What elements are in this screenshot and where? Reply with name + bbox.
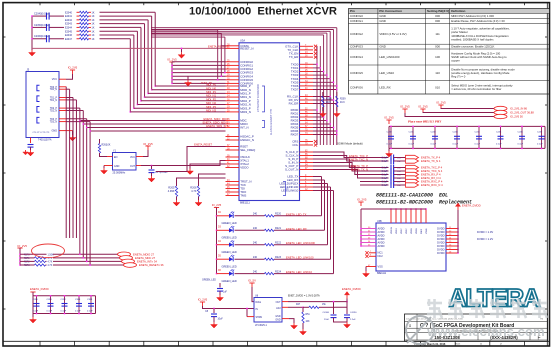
wire led row 2 right <box>274 244 328 246</box>
svg-text:IO_2V5: IO_2V5 <box>436 101 446 105</box>
terminator network row 6 labels <box>65 34 95 37</box>
pin TD3 stub <box>59 121 66 123</box>
resistor R_rset2 <box>197 186 199 197</box>
svg-text:ENETA_LED_LINK10: ENETA_LED_LINK10 <box>286 270 312 274</box>
svg-text:0.1uF: 0.1uF <box>431 144 437 146</box>
pin VCC stub magnetics <box>59 78 66 80</box>
power ENETA_DVDD reg <box>342 287 361 298</box>
junction termination drop 6 <box>133 107 135 109</box>
wire dvdd bank bottom rail <box>33 313 96 315</box>
wire ferrite row 3 to drop <box>100 23 145 25</box>
wire MDI row 6 <box>134 107 226 109</box>
svg-text:Setting Bit[2:0]: Setting Bit[2:0] <box>427 9 449 13</box>
wire cap bank bottom rail <box>389 147 545 149</box>
power IO_2V5 oscillator <box>143 142 153 150</box>
terminator network row 1 labels <box>65 15 95 18</box>
ground reg in cap <box>211 322 218 328</box>
svg-text:C243: C243 <box>453 131 459 133</box>
svg-text:copper: copper <box>451 59 460 63</box>
wire led row 0 mid <box>235 215 265 217</box>
power IO_2V5 magnetics <box>68 66 78 75</box>
svg-text:ENETA_RX_N 4: ENETA_RX_N 4 <box>421 176 441 180</box>
wire R2080 gnd <box>322 107 324 111</box>
svg-text:C246: C246 <box>518 131 524 133</box>
resistor R273 <box>20 264 47 266</box>
svg-text:0.1uF: 0.1uF <box>382 178 388 180</box>
junction COMA tie <box>181 48 183 50</box>
svg-text:ENETA_SDN_INT: ENETA_SDN_INT <box>206 124 228 128</box>
svg-text:C353: C353 <box>75 299 81 301</box>
wire MDI row 7 <box>130 111 225 113</box>
wire dvdd bank top rail <box>33 295 96 297</box>
led D2 GREEN_LED <box>229 240 234 247</box>
power ENETA_DVDD U3B <box>455 203 480 210</box>
ground R_rset2 <box>195 200 202 206</box>
resistor R_led0 240 <box>265 215 275 217</box>
svg-text:ENETA_SDIO_MDC: ENETA_SDIO_MDC <box>204 117 228 121</box>
wire CONFIG4 to chip <box>172 75 226 77</box>
wire TD wire 3 right <box>66 99 76 101</box>
resistor RN207 stubs <box>77 38 92 40</box>
wire pull row 2 to oval <box>53 260 122 262</box>
svg-text:240: 240 <box>253 213 258 216</box>
wire radj gnd <box>302 323 304 329</box>
svg-text:NC2: NC2 <box>378 254 384 258</box>
resistor R_adj 10K <box>302 312 304 323</box>
svg-text:ENETA_RESETn 36: ENETA_RESETn 36 <box>139 263 164 267</box>
svg-text:CONFIG2: CONFIG2 <box>350 32 363 36</box>
wire U3B left rail <box>360 209 362 246</box>
svg-text:0.1uF: 0.1uF <box>75 311 81 313</box>
wire U3B vss gnd <box>365 267 367 272</box>
PHY power chip U3B body <box>376 220 446 275</box>
svg-text:U3A: U3A <box>240 39 245 43</box>
pin reg out stub <box>282 301 288 303</box>
resistor RN204 <box>80 26 89 28</box>
junction CONFIG5 <box>171 79 173 81</box>
wire SGMII diff rows <box>313 152 389 185</box>
svg-text:Reg (?) = 0: Reg (?) = 0 <box>451 75 466 79</box>
junction adj node <box>302 307 304 309</box>
svg-text:C247: C247 <box>537 131 543 133</box>
svg-text:MDI_N2: MDI_N2 <box>206 101 216 105</box>
svg-text:ENETA_TX_P 4: ENETA_TX_P 4 <box>421 156 441 160</box>
wire branch bus left of chip <box>151 30 226 81</box>
svg-text:GREEN_LED: GREEN_LED <box>222 266 237 269</box>
watermark elecfans circle <box>406 316 434 344</box>
svg-text:GND: GND <box>275 320 280 322</box>
svg-text:CONFIG1: CONFIG1 <box>350 19 363 23</box>
svg-text:GND: GND <box>379 19 385 23</box>
wire config rail <box>171 62 173 83</box>
wire ferrite row 7 to drop <box>100 38 131 40</box>
resistor R_led2 240 <box>265 244 275 246</box>
svg-text:ENETA_TX_N: ENETA_TX_N <box>351 168 368 172</box>
svg-text:88E1111: 88E1111 <box>377 272 387 275</box>
resistor RN204 stubs <box>77 26 92 28</box>
wire TD wire 0 right <box>65 86 67 88</box>
ground R2080 <box>319 111 326 117</box>
junction CONFIG3 <box>171 72 173 74</box>
svg-text:C352: C352 <box>61 299 67 301</box>
wire reg gnd <box>289 319 294 323</box>
junction led rail 1 <box>216 230 218 232</box>
wire XTAL2 gnd <box>190 164 226 169</box>
wire ferrite row 1 to drop <box>100 15 152 17</box>
svg-text:CONFIG5: CONFIG5 <box>350 71 363 75</box>
wire TD wire 3 drop <box>75 100 77 238</box>
svg-text:MDI_P3: MDI_P3 <box>206 105 216 109</box>
offpage oval ENETA mdio 0 <box>118 252 131 257</box>
svg-text:010: 010 <box>435 85 440 89</box>
pin U3B NC2 <box>365 255 376 258</box>
svg-text:VDDR: VDDR <box>411 228 413 234</box>
wire shdn join <box>246 309 248 317</box>
wire magnetics gnd drop <box>72 131 74 135</box>
junction pull bottom 3 <box>89 264 91 266</box>
svg-text:C240: C240 <box>387 131 393 133</box>
title block <box>405 314 548 346</box>
wire C_ct to ground <box>30 147 32 150</box>
wire R_rset2 up <box>199 174 226 186</box>
wire TD wire 4 drop <box>79 108 81 254</box>
capacitor C4180 <box>331 315 337 318</box>
wire termination drop 1 <box>151 16 153 90</box>
junction pull bottom 0 <box>79 254 81 256</box>
svg-text:ENETA_TX_P: ENETA_TX_P <box>351 164 368 168</box>
pins U3B AVDD <box>360 227 376 247</box>
wire TD wire 6 drop <box>86 119 88 262</box>
svg-text:www.elecfans.com: www.elecfans.com <box>426 324 545 339</box>
svg-text:22uF: 22uF <box>324 319 330 321</box>
wire U3B top rail <box>361 208 426 210</box>
svg-text:GREEN_LED: GREEN_LED <box>222 237 237 240</box>
junction termination drop 5 <box>137 104 139 106</box>
svg-text:C2040|0.01uF: C2040|0.01uF <box>34 12 50 15</box>
magnetics transformer J5 body <box>26 68 59 138</box>
svg-text:0.1uF: 0.1uF <box>496 144 502 146</box>
power IO_2V5 led rail <box>212 203 222 211</box>
svg-text:240: 240 <box>253 270 258 273</box>
svg-text:IO_2V5: IO_2V5 <box>198 298 208 302</box>
svg-text:10K: 10K <box>306 321 311 323</box>
svg-text:240: 240 <box>253 256 258 259</box>
label R_rset1 <box>168 186 175 194</box>
pin TD0 stub <box>59 86 66 88</box>
svg-text:AVDD: AVDD <box>378 241 385 245</box>
wire CONFIG0 to chip <box>172 61 226 63</box>
wire R_rset1 up <box>177 178 226 186</box>
junction termination drop 7 <box>130 111 132 113</box>
svg-text:NC1: NC1 <box>378 251 384 255</box>
svg-text:TD0_N: TD0_N <box>50 89 58 91</box>
svg-text:IO_2V5: IO_2V5 <box>212 203 222 207</box>
svg-text:TXD7: TXD7 <box>291 88 299 92</box>
ground cap bank <box>386 148 393 157</box>
svg-text:AVDD: AVDD <box>378 237 385 241</box>
pin TD2 stub <box>59 107 66 109</box>
wire TD wire 2 drop <box>72 98 74 239</box>
svg-text:C354: C354 <box>87 299 93 301</box>
svg-text:0.1uF: 0.1uF <box>87 311 93 313</box>
svg-text:VCC: VCC <box>52 78 57 81</box>
svg-text:MDI_P2: MDI_P2 <box>206 97 216 101</box>
wire U3B dvdd rail <box>457 210 459 253</box>
svg-text:DVDD: DVDD <box>437 227 444 231</box>
terminator network row 2 labels <box>65 19 95 22</box>
svg-text:ENETA_RXC_N 4: ENETA_RXC_N 4 <box>421 183 443 187</box>
terminator network row 3 labels <box>65 23 95 26</box>
resistor R_rset1 <box>175 186 177 197</box>
ground magnetics GND pin <box>69 135 76 141</box>
svg-text:TX_ER: TX_ER <box>289 55 298 59</box>
pin TD1 stub <box>59 99 66 101</box>
border inner right line <box>546 3 548 346</box>
svg-text:R222: R222 <box>275 241 282 244</box>
wire MDI row 1 <box>152 89 226 91</box>
svg-text:Pin: Pin <box>350 9 355 13</box>
wire ENETA_RESET <box>156 147 226 172</box>
offpage oval ENETA mdio 3 <box>124 263 137 268</box>
svg-text:1K: 1K <box>92 30 95 33</box>
svg-text:ENETA_RXC_P 4: ENETA_RXC_P 4 <box>421 180 443 184</box>
ground dvdd bank <box>30 317 37 323</box>
pin U3B VSS <box>366 265 376 267</box>
wire MDI row 4 <box>141 100 226 102</box>
svg-text:MDI_N0: MDI_N0 <box>206 86 216 90</box>
svg-text:SHDN: SHDN <box>256 317 263 319</box>
wire out cap branch <box>333 302 335 314</box>
wire regled gnd <box>219 291 221 295</box>
wire TD wire 5 right <box>66 110 83 112</box>
svg-text:LTC3025-1: LTC3025-1 <box>255 324 267 327</box>
label C_regin <box>205 311 223 321</box>
svg-text:4.99K: 4.99K <box>168 189 175 193</box>
pin VCC stub osc <box>136 156 143 158</box>
svg-text:ENETA_SDIO_MDIO: ENETA_SDIO_MDIO <box>203 121 228 125</box>
svg-text:GREEN_LED: GREEN_LED <box>222 222 237 225</box>
wire osc gnd <box>103 166 105 169</box>
svg-text:CONFIG6: CONFIG6 <box>350 85 363 89</box>
wire led vertical 0 <box>321 177 323 216</box>
svg-text:IN: IN <box>256 309 259 311</box>
wire COMA tie <box>181 48 183 52</box>
led D4 GREEN_LED <box>229 269 234 276</box>
capacitor C4190 <box>344 315 350 318</box>
junction top-left cap row 0 <box>31 15 33 17</box>
ground xtal cap <box>148 176 155 182</box>
led D1 GREEN_LED <box>229 226 234 233</box>
wire CONFIG3 to chip <box>172 72 226 74</box>
junction CONFIG4 <box>171 75 173 77</box>
svg-text:MDI_P1: MDI_P1 <box>206 90 216 94</box>
svg-text:VDDOH: VDDOH <box>391 226 393 234</box>
svg-text:0.1uF: 0.1uF <box>382 174 388 176</box>
svg-text:DVDD = 1.0V: DVDD = 1.0V <box>477 230 493 234</box>
label R_rset2 <box>190 186 197 194</box>
svg-text:LED_LINK1000: LED_LINK1000 <box>379 55 399 59</box>
offpage oval ENETA mdio 1 <box>120 256 133 261</box>
capacitors bypass bank <box>387 126 545 149</box>
pin reg gnd stub <box>282 318 289 320</box>
resistor R_led4 240 <box>265 272 275 274</box>
junction termination drop 4 <box>140 100 142 102</box>
wire TD wire 1 right <box>66 88 70 90</box>
resistor RN206 stubs <box>77 34 92 36</box>
pin TD0 stub <box>59 88 66 90</box>
svg-text:240: 240 <box>253 241 258 244</box>
svg-text:E2042: E2042 <box>65 19 73 22</box>
wire MDI row 0 <box>155 85 225 87</box>
svg-text:FREF: FREF <box>421 228 423 234</box>
ground oscillator <box>101 168 108 174</box>
junction led rail 2 <box>216 244 218 246</box>
power IO_2V5 bank left <box>384 116 394 125</box>
wire reg in <box>203 306 255 309</box>
wire CONFIG2 to chip <box>172 68 226 70</box>
pin EN stub <box>107 156 113 158</box>
wire pull row 3 to oval <box>53 264 124 266</box>
junction pull rail 2 <box>19 261 21 263</box>
svg-text:GREEN_LED: GREEN_LED <box>202 280 216 282</box>
svg-text:0.1uF: 0.1uF <box>382 157 388 159</box>
svg-text:VSS: VSS <box>378 265 383 269</box>
svg-text:0.1uF: 0.1uF <box>61 311 67 313</box>
pins U3B DVDD <box>446 227 459 254</box>
PHY internal bracket JTAG <box>283 182 290 196</box>
svg-text:ENETA_DVDD: ENETA_DVDD <box>342 287 361 291</box>
border right ruler ticks <box>545 37 547 309</box>
svg-text:C4190: C4190 <box>350 312 357 314</box>
wire reg out <box>288 301 347 303</box>
offpage oval IO_2V5_IN <box>494 106 507 110</box>
wire led pin link 4 <box>313 190 334 192</box>
PHY U3A right pins <box>279 44 317 192</box>
wire termination drop 5 <box>136 31 138 104</box>
junction led rail 4 <box>216 273 218 275</box>
svg-text:ALASKA GIGABIT PHY: ALASKA GIGABIT PHY <box>270 108 273 135</box>
capacitor C_regled <box>217 289 223 292</box>
svg-text:R220: R220 <box>275 213 282 216</box>
svg-text:ENETA_RX_P 4: ENETA_RX_P 4 <box>421 173 441 177</box>
wire termination drop 7 <box>129 39 131 112</box>
junction CONFIG1 <box>171 65 173 67</box>
wire R2090 gnd <box>336 107 338 111</box>
svg-text:4.7K: 4.7K <box>191 189 197 193</box>
wire led row 3 mid <box>235 258 265 260</box>
svg-text:ENETA_TXC_P: ENETA_TXC_P <box>349 154 368 158</box>
svg-text:= active low, 40 ohm terminati: = active low, 40 ohm termination for fib… <box>451 87 501 91</box>
wire bank b <box>423 112 494 115</box>
svg-text:C4180: C4180 <box>323 312 330 314</box>
wire TD wire 7 right <box>66 121 90 123</box>
svg-text:DVDD: DVDD <box>437 230 444 234</box>
svg-text:TMS: TMS <box>240 194 246 198</box>
wire MDC row 3 <box>90 130 225 132</box>
svg-text:TD1_N: TD1_N <box>50 100 58 102</box>
resistor RN206 <box>80 34 89 36</box>
capacitor C_regin <box>211 314 217 317</box>
power IO_2V5 reg in <box>198 298 208 306</box>
ground R_adj <box>300 329 307 335</box>
offpage arrows SGMII <box>406 155 444 187</box>
svg-text:RESET_N: RESET_N <box>240 47 253 51</box>
svg-text:LED_UN10: LED_UN10 <box>379 71 394 75</box>
wire MDC row 0 <box>80 120 226 122</box>
svg-text:ADJ: ADJ <box>276 307 280 310</box>
svg-text:ENETA_MDC 27: ENETA_MDC 27 <box>135 256 156 260</box>
wire adj rdown <box>302 307 304 312</box>
junction out node <box>346 301 348 303</box>
wire osc vcc <box>143 150 148 157</box>
junction termination drop 0 <box>154 85 156 87</box>
resistor RN200 <box>80 11 89 13</box>
wire TD wire 7 drop <box>89 122 91 265</box>
wire IO_5V to DIAG <box>252 287 254 302</box>
svg-text:IO_2V5: IO_2V5 <box>400 105 410 109</box>
border left ruler ticks <box>3 37 6 309</box>
label R2080 <box>326 99 332 104</box>
junction led rail 0 <box>216 215 218 217</box>
ground magnetics CT cap <box>27 150 34 156</box>
svg-text:U3B: U3B <box>377 220 382 223</box>
wire led vertical 4 <box>333 191 335 274</box>
svg-text:GND: GND <box>275 316 280 318</box>
junction CONFIG2 <box>171 68 173 70</box>
svg-text:ENETA_DVDD: ENETA_DVDD <box>30 287 49 291</box>
wire dvdd bank stem <box>32 292 34 296</box>
wire RXD bus joins <box>313 109 338 135</box>
wire termination drop 3 <box>144 24 146 97</box>
junction shdn <box>246 308 248 310</box>
junction top-left cap row 1 <box>31 27 33 29</box>
svg-text:DVDD = 1.2V: DVDD = 1.2V <box>477 237 493 241</box>
svg-text:1K: 1K <box>92 11 95 14</box>
wire cap bank top rail <box>389 125 545 127</box>
svg-text:AVDD: AVDD <box>378 244 385 248</box>
svg-text:0.1uF: 0.1uF <box>382 181 388 183</box>
wire out node down <box>335 302 347 308</box>
wire osc load cap drop <box>151 166 153 170</box>
svg-text:IO_2V5: IO_2V5 <box>384 116 394 120</box>
svg-text:IO_2V5_IN 86: IO_2V5_IN 86 <box>510 107 528 111</box>
wire DNI row <box>20 253 47 255</box>
wire termination drop 2 <box>147 20 149 94</box>
wire TD wire 2 right <box>66 97 73 99</box>
svg-text:Disable crossover, Enable 125C: Disable crossover, Enable 125CLK <box>451 45 494 49</box>
wire led pin link 1 <box>313 179 325 181</box>
ground R_rset1 <box>173 200 180 206</box>
svg-text:ENETA_TXC_N 4: ENETA_TXC_N 4 <box>421 169 443 173</box>
wire ENETA_RESETn long <box>32 47 226 49</box>
power ENETA_DVDD bank <box>30 287 49 296</box>
svg-text:ENETA_LED_LINK1000: ENETA_LED_LINK1000 <box>286 241 315 245</box>
resistor RN202 <box>80 19 89 21</box>
svg-text:0.1uF: 0.1uF <box>382 171 388 173</box>
wire ferrite row 4 to drop <box>100 26 141 28</box>
wire led pin link 0 <box>313 176 322 178</box>
svg-text:IO_2V5 50: IO_2V5 50 <box>510 115 523 119</box>
svg-text:LED_LINK10: LED_LINK10 <box>281 189 298 193</box>
svg-text:VCC: VCC <box>130 156 135 159</box>
svg-text:2.2uF: 2.2uF <box>350 319 356 321</box>
svg-text:Definition: Definition <box>451 9 465 13</box>
svg-text:GREEN_LED: GREEN_LED <box>222 251 237 254</box>
wire led row 4 mid <box>235 273 265 275</box>
resistor RN203 <box>80 22 89 24</box>
resistor RN202 stubs <box>77 19 92 21</box>
svg-text:0.1uF: 0.1uF <box>47 311 53 313</box>
